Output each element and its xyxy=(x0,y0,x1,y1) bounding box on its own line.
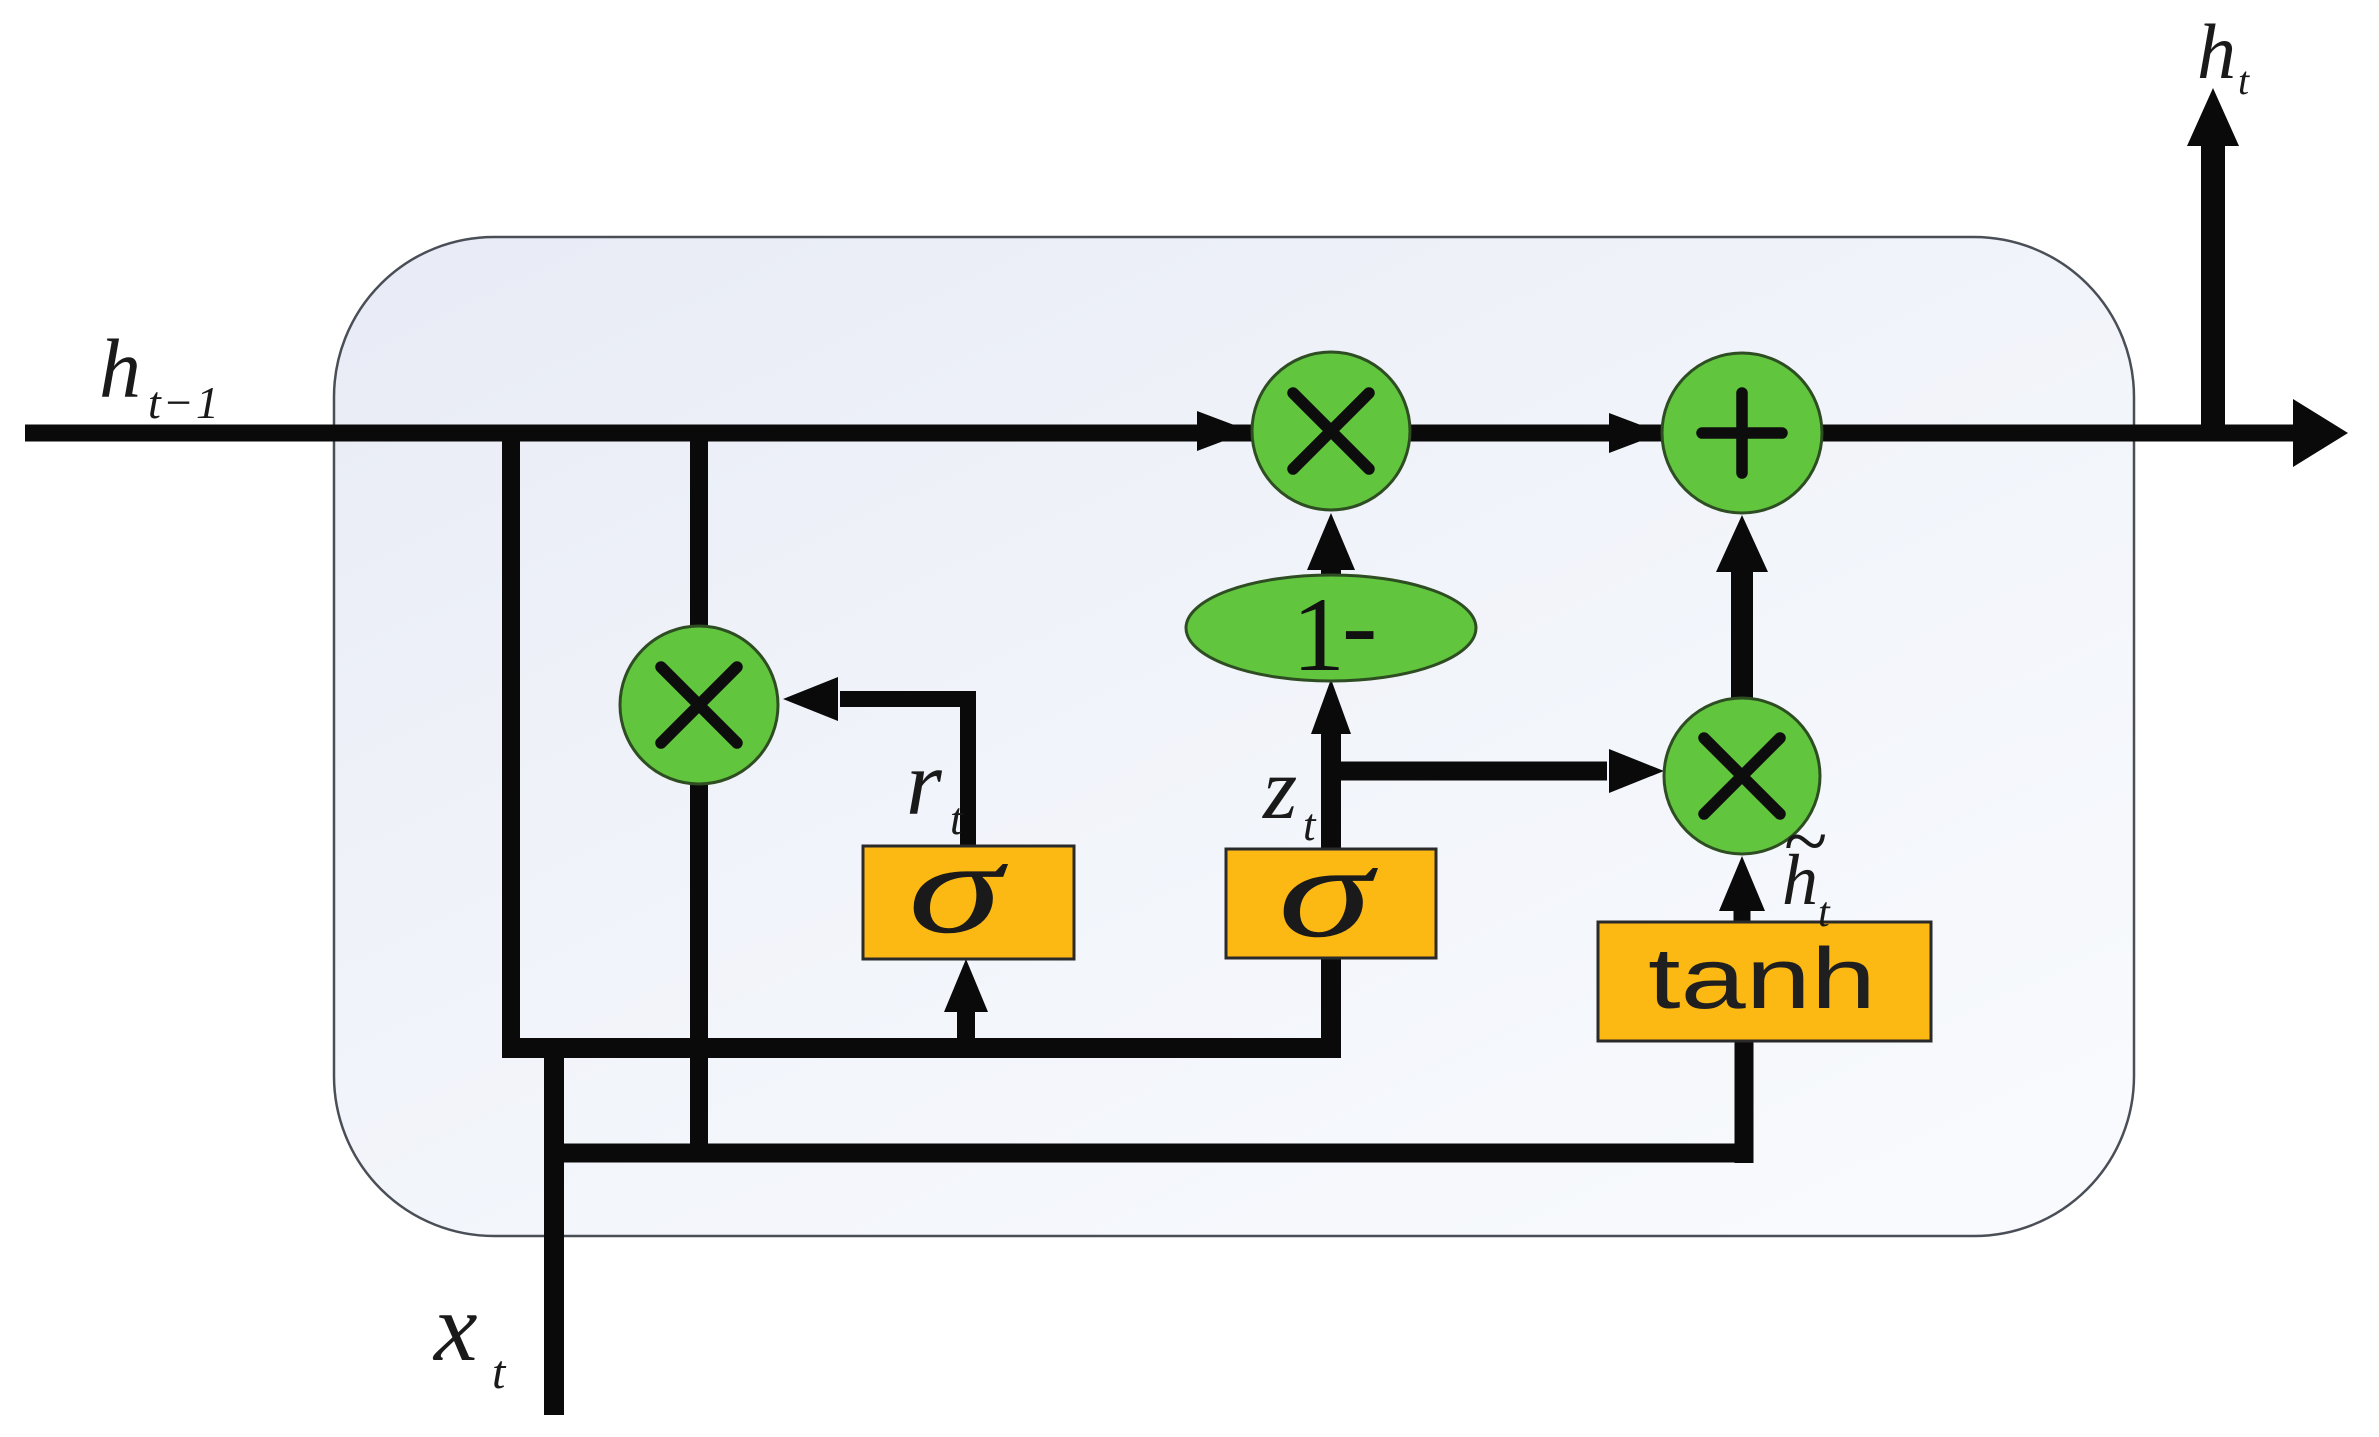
svg-text:~: ~ xyxy=(1783,798,1826,886)
svg-text:h: h xyxy=(2197,8,2236,95)
svg-text:x: x xyxy=(432,1274,478,1382)
svg-text:t: t xyxy=(1303,800,1317,850)
svg-text:t: t xyxy=(1818,890,1831,936)
svg-text:t: t xyxy=(492,1346,507,1399)
svg-text:1: 1 xyxy=(1292,576,1345,693)
svg-text:σ: σ xyxy=(1278,818,1379,965)
svg-text:tanh: tanh xyxy=(1648,931,1876,1027)
svg-text:t: t xyxy=(2238,58,2250,103)
svg-text:t: t xyxy=(950,794,964,844)
svg-text:h: h xyxy=(99,323,141,416)
svg-text:z: z xyxy=(1262,741,1297,838)
svg-text:r: r xyxy=(906,732,943,834)
svg-text:t−1: t−1 xyxy=(148,377,221,428)
svg-text:-: - xyxy=(1342,566,1377,683)
